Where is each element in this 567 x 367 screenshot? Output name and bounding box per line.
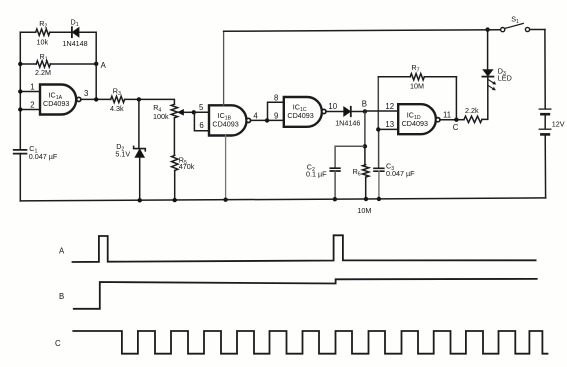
feedback resistor R7 row wire <box>378 76 456 78</box>
junction dot R6 / rail <box>364 197 368 201</box>
nand gate IC1A body <box>40 85 76 115</box>
waveform C trace <box>73 331 547 354</box>
wire LED anode to top rail <box>487 30 489 70</box>
svg-text:13: 13 <box>385 120 394 129</box>
wire R7 right vertical to node C <box>455 77 457 120</box>
wire C3 bottom to rail <box>378 171 380 199</box>
junction dot pin 1 <box>18 89 22 93</box>
node C (junction dot + label) <box>454 118 458 122</box>
wire input-tie bracket to pin 6 <box>194 112 209 131</box>
junction dot LED / top rail <box>485 27 489 31</box>
svg-text:10M: 10M <box>357 206 371 215</box>
wire C1 bottom to ground rail corner <box>19 154 21 201</box>
node B (junction dot + label) <box>363 109 367 113</box>
junction dot R5 / rail <box>173 198 177 202</box>
IC1A inversion bubble <box>77 97 81 101</box>
junction dot D2 / rail <box>138 198 142 202</box>
svg-text:1N4148: 1N4148 <box>63 39 88 48</box>
svg-text:C: C <box>453 123 459 132</box>
svg-text:B: B <box>362 100 367 109</box>
svg-text:12: 12 <box>385 102 394 111</box>
resistor R6 <box>363 165 369 177</box>
junction dot IC1B ground / rail <box>223 198 227 202</box>
IC1D inversion bubble <box>436 118 440 122</box>
wire pin 1 stub <box>20 91 40 93</box>
wire IC1B ground power line to bottom rail <box>225 136 227 200</box>
wire pot middle to R5 <box>173 118 175 156</box>
svg-text:CD4093: CD4093 <box>212 120 238 129</box>
wire top supply rail <box>224 30 545 32</box>
wire node B vertical down to C2 junction <box>364 112 366 147</box>
IC1B inversion bubble <box>246 118 250 122</box>
svg-text:5.1V: 5.1V <box>115 150 130 159</box>
svg-text:1: 1 <box>30 82 34 91</box>
resistor 2.2k <box>464 116 482 122</box>
wire IC1C output to diode <box>326 111 344 113</box>
resistor R3 <box>111 96 125 102</box>
wire C2 bottom to rail <box>334 171 336 199</box>
battery B1 plates <box>539 108 551 110</box>
wire R3 to pot top corner <box>125 99 175 104</box>
wire resistor to LED cathode <box>482 77 488 120</box>
svg-text:3: 3 <box>84 89 88 98</box>
waveform B trace <box>74 279 537 309</box>
junction dot output 4 node <box>265 118 269 122</box>
wire D2 branch vertical <box>138 99 141 200</box>
wire C2 top L-link <box>335 146 365 168</box>
svg-text:100k: 100k <box>153 112 169 121</box>
wire IC1B output 4 <box>251 119 267 121</box>
capacitor C3 plates <box>374 168 384 171</box>
resistor R2 <box>36 29 50 35</box>
svg-text:11: 11 <box>443 110 451 119</box>
junction dot R3 / D2 branch <box>137 97 141 101</box>
LED D3 (triangle pointing down + cathode bar) <box>483 70 492 76</box>
svg-text:5: 5 <box>199 103 204 112</box>
svg-text:CD4093: CD4093 <box>43 99 69 108</box>
svg-text:10k: 10k <box>37 38 49 47</box>
svg-text:470k: 470k <box>179 162 195 171</box>
junction dot wiper node / pin5 <box>192 110 196 114</box>
svg-text:6: 6 <box>199 121 203 130</box>
wire input-tie bracket to pin 8 <box>268 102 284 120</box>
svg-text:9: 9 <box>274 112 278 121</box>
svg-text:2: 2 <box>30 101 34 110</box>
junction dot pin 13 node <box>376 127 380 131</box>
diode D1 (cathode bar left, triangle pointing left) <box>71 27 73 37</box>
svg-text:CD4093: CD4093 <box>402 119 428 128</box>
svg-text:8: 8 <box>274 94 278 103</box>
wire node B to pin 12 <box>365 110 398 112</box>
wire bottom ground rail <box>20 198 545 201</box>
wire R6 bottom to rail <box>365 177 367 199</box>
R4 wiper arrow <box>183 111 194 113</box>
svg-text:12V: 12V <box>552 119 565 128</box>
svg-text:A: A <box>59 246 65 255</box>
potentiometer R4 (vertical) <box>171 104 177 117</box>
switch S1 contacts <box>501 28 505 32</box>
diode 1N4146 (triangle pointing right, bar right) <box>344 107 351 116</box>
svg-text:C: C <box>55 339 61 348</box>
wire R1 feedback row <box>20 63 96 65</box>
switch S1 lever <box>505 23 524 28</box>
svg-text:4: 4 <box>253 111 258 120</box>
nand gate IC1C body <box>284 97 322 127</box>
junction dot pin 2 <box>18 107 22 111</box>
resistor R7 <box>410 74 424 80</box>
wire top feedback row (R2/D1) <box>20 31 96 33</box>
svg-text:2.2k: 2.2k <box>465 106 479 115</box>
wire diode to node B <box>351 111 365 113</box>
wire battery top lead <box>544 30 546 109</box>
wire node C to 2.2k resistor <box>456 119 464 121</box>
svg-text:0.1 µF: 0.1 µF <box>306 170 327 179</box>
svg-text:10: 10 <box>328 102 337 111</box>
wire IC1D output 11 to node C <box>440 119 456 121</box>
node A (junction dot + label) <box>94 62 98 66</box>
wire IC1B V+ power line to top rail <box>223 31 225 105</box>
zener diode D2 (bar with hooks + filled triangle pointing up) <box>134 146 146 150</box>
junction dot C2 / rail <box>333 197 337 201</box>
svg-text:LED: LED <box>498 74 512 83</box>
wire IC1A output to R3 <box>81 98 111 100</box>
wire left vertical rail (IC1A input side) <box>19 32 21 149</box>
resistor R5 <box>172 155 178 170</box>
battery middle link <box>544 115 546 128</box>
resistor R1 <box>36 61 50 67</box>
nand gate IC1D body <box>398 104 436 134</box>
wire pin 9 stub <box>267 119 284 121</box>
IC1C inversion bubble <box>322 109 326 113</box>
svg-text:2.2M: 2.2M <box>35 68 51 77</box>
junction dot C2 top tie <box>363 144 367 148</box>
wire pin 13 stub <box>378 128 398 130</box>
waveform A trace <box>73 235 536 262</box>
wire pin 5 stub <box>194 111 209 113</box>
LED light arrows <box>488 80 494 89</box>
wire R5 bottom to ground rail <box>174 171 176 201</box>
junction dot left rail / R1 <box>18 62 22 66</box>
capacitor C1 plates <box>14 150 27 154</box>
wire R6 top link <box>364 146 366 164</box>
wire node A vertical (top row to gate output) <box>95 32 97 99</box>
svg-text:A: A <box>101 61 107 70</box>
junction dot C3 / rail <box>377 197 381 201</box>
junction dot output 3 / node A line <box>94 97 98 101</box>
svg-text:10M: 10M <box>410 81 424 90</box>
wire pin 2 stub <box>20 109 40 111</box>
svg-text:0.047 µF: 0.047 µF <box>386 169 415 178</box>
svg-text:0.047 µF: 0.047 µF <box>29 152 58 161</box>
wire battery bottom lead to ground rail <box>544 136 546 198</box>
svg-text:B: B <box>59 292 64 301</box>
svg-text:4.3k: 4.3k <box>110 104 124 113</box>
wire R7-left / pin13 / C3 vertical <box>377 77 379 169</box>
capacitor C2 plates <box>330 168 340 171</box>
svg-text:CD4093: CD4093 <box>287 111 313 120</box>
nand gate IC1B body <box>209 105 246 135</box>
svg-text:1N4146: 1N4146 <box>335 119 360 128</box>
